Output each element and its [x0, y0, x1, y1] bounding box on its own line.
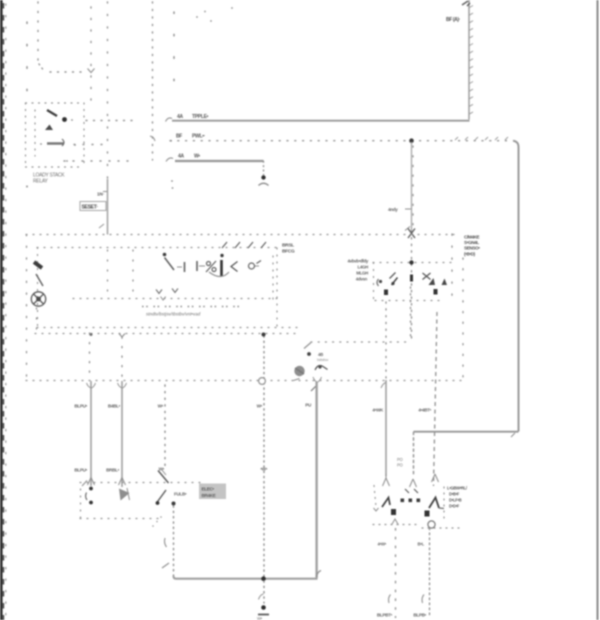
AC relay switch slashes: [390, 273, 396, 279]
wire dotted vertical x91: [90, 7, 92, 102]
svg-text:BFCG: BFCG: [282, 249, 295, 255]
svg-text:W•: W•: [158, 404, 164, 409]
pin square A: [391, 509, 396, 515]
connector end fork wire x386: [383, 474, 390, 486]
wire dotted row y161 from relay: [64, 160, 132, 162]
lower-left dashed box: [80, 483, 200, 520]
connector symbol below x263: [259, 183, 269, 185]
switch lever A in lower-right box: [382, 498, 390, 508]
svg-text:BRBL•: BRBL•: [106, 468, 120, 473]
capacitor bars: [184, 262, 186, 272]
svg-text:D•D•F: D•D•F: [449, 504, 460, 509]
solenoid bar with arc: [220, 254, 223, 257]
percent symbol component: [207, 262, 211, 266]
tick on x317 below box: [311, 386, 316, 391]
wire x89 inside ECM box: [89, 333, 91, 379]
chevron contact: [231, 262, 238, 272]
svg-text:4•W•: 4•W•: [378, 542, 387, 547]
wire dotted line y140 PWL: [170, 140, 513, 142]
svg-text:4A: 4A: [177, 114, 183, 120]
wire dotted vertical x107: [107, 2, 109, 179]
terminal dot x263: [261, 175, 265, 179]
connector tick x386 top: [381, 383, 386, 389]
wire dotted vertical x152: [152, 2, 154, 160]
wire dotted vertical x38 top: [38, 2, 84, 72]
connector V mark x122 on row y333: [119, 334, 125, 338]
connector fork x122 at box top: [119, 478, 126, 486]
AC relay coil bar: [410, 275, 413, 282]
svg-text:BLPU•: BLPU•: [74, 468, 87, 473]
connector exit ticks wire x317: [313, 377, 322, 382]
wire horizontal y431: [414, 431, 519, 433]
junction circle x262 on box bottom: [259, 378, 266, 385]
wire dotted x429 bottom: [429, 528, 431, 618]
pin tick below fuse: [99, 224, 104, 228]
wire x264 below bus: [263, 581, 265, 603]
diode hook symbol: [315, 366, 328, 370]
switch S2 contacts x91: [89, 487, 93, 491]
wire sparse dotted vertical x174: [173, 12, 175, 98]
svg-text:L•GBW•RL/: L•GBW•RL/: [447, 486, 468, 491]
wire solid x122 down: [121, 381, 123, 487]
scan left border: [0, 0, 3, 620]
wire dotted row y144 from relay: [74, 144, 106, 146]
svg-text:PU: PU: [305, 403, 312, 408]
svg-text:D•B•F: D•B•F: [449, 492, 460, 497]
connector arc x429: [422, 595, 424, 604]
svg-text:ELEC•: ELEC•: [202, 487, 215, 492]
svg-text:MLGH: MLGH: [356, 271, 368, 276]
connector fork x91 at box top: [88, 478, 95, 486]
connector circle: [428, 521, 435, 528]
svg-text:S•GN4L: S•GN4L: [464, 240, 479, 245]
svg-text:4dvsn: 4dvsn: [356, 277, 368, 282]
wire dashed row y342: [311, 341, 411, 343]
tick at box top left: [82, 481, 87, 487]
ECM inner dashed box: [35, 248, 298, 334]
coil circle with tick: [249, 263, 255, 269]
wire dotted x410 below AC box: [410, 287, 412, 340]
svg-text:FULB•: FULB•: [174, 492, 187, 497]
connector hook at start of y160 wire: [166, 158, 173, 162]
junction dark dot x264 y334: [262, 333, 266, 337]
wire solid x386 down: [385, 380, 387, 476]
svg-text:BF (A)·: BF (A)·: [446, 17, 461, 23]
svg-text:BR4KE: BR4KE: [202, 493, 216, 498]
junction X mark at x411 y233: [408, 229, 415, 239]
stray dot below relay label: [26, 186, 28, 188]
switch lever B in lower-right box: [429, 498, 439, 509]
svg-text:BF: BF: [176, 134, 182, 140]
connector arc on x173: [165, 538, 167, 547]
svg-text:4vbvb•dfdy: 4vbvb•dfdy: [348, 259, 369, 264]
pin ticks above PWL wire right section: [455, 137, 508, 140]
AC relay arrow mark A: [429, 278, 436, 285]
stray connector dots top middle: [196, 7, 233, 22]
AC relay dashed box: [373, 263, 457, 302]
inner wires dotted columns: [37, 250, 134, 330]
svg-text:BLPB•: BLPB•: [413, 613, 426, 618]
junction dot ground bus x264: [261, 576, 266, 581]
wire dotted x386 below AC box: [385, 302, 387, 379]
AC relay pin squares: [384, 290, 388, 296]
relay K1 terminal dots row: [40, 119, 76, 162]
switch lever left: [36, 274, 43, 286]
svg-text:B4BL•: B4BL•: [108, 404, 121, 409]
svg-text:PO: PO: [397, 463, 403, 468]
wire solid line y120 A TPPLE: [172, 120, 470, 122]
connector arc x395: [389, 595, 391, 604]
wire sparse dotted vertical x27: [26, 22, 28, 100]
relay K1 coil body: [47, 142, 64, 145]
svg-text:4•WK: 4•WK: [372, 408, 384, 413]
relay K1 box (dashed): [26, 103, 85, 167]
fuse label box SESET on wire x107: [80, 202, 106, 211]
ground terminal dot: [261, 605, 266, 610]
wire sparse dots x452: [451, 234, 453, 302]
wire solid line y160 A W: [175, 160, 264, 162]
pin tick top: [462, 1, 470, 6]
svg-text:BRSL: BRSL: [282, 243, 294, 249]
node junction x91 y71: [88, 69, 95, 73]
junction blob left inner edge: [34, 262, 42, 268]
terminal circles row: [142, 306, 240, 308]
pin tick on y431 wire: [511, 433, 515, 437]
relay K1 contact dot: [62, 117, 67, 122]
relay K1 coil arrow: [45, 125, 53, 131]
svg-text:BLPU•: BLPU•: [74, 404, 87, 409]
junction dot AC box top: [409, 260, 413, 264]
svg-text:SENSO•: SENSO•: [464, 246, 480, 251]
contact squares row: [401, 499, 405, 503]
fork above bottom wire x395: [392, 519, 399, 525]
svg-text:L4GH: L4GH: [357, 265, 368, 270]
svg-text:W•: W•: [194, 154, 200, 160]
wire solid x107 y180-234: [107, 179, 109, 235]
relay K1 switch lever: [47, 110, 57, 116]
tick on x173: [162, 563, 169, 568]
svg-text:SESET·: SESET·: [82, 205, 99, 211]
svg-text:B•L: B•L: [418, 542, 425, 547]
svg-text:W•: W•: [257, 616, 263, 620]
ground bus horizontal y578: [174, 382, 317, 579]
ELEC shaded box: [199, 484, 226, 500]
svg-text:•W•: •W•: [260, 467, 267, 472]
svg-text:PWL•·: PWL•·: [192, 134, 206, 140]
svg-text:bvbvbvv: bvbvbvv: [317, 358, 329, 362]
stray dots x172 below A W: [171, 180, 173, 189]
v-marks bottom left of inner box: [156, 290, 162, 294]
svg-text:stndtv/bstjsv/tbstbv/vnt•vad: stndtv/bstjsv/tbstbv/vnt•vad: [146, 312, 201, 317]
connector end fork wire x435: [432, 474, 439, 482]
svg-text:TPPLE•: TPPLE•: [192, 114, 209, 120]
scan right border: [597, 0, 599, 620]
svg-text:C/M4KE: C/M4KE: [464, 234, 480, 239]
svg-text:W•: W•: [159, 467, 165, 472]
tick w under lever A: [374, 508, 379, 511]
contact marks upper row: [405, 489, 418, 493]
wire stub x263 down from y160: [263, 161, 265, 175]
wire x122 inside ECM box: [121, 337, 123, 379]
svg-text:BLPBT•: BLPBT•: [377, 613, 393, 618]
svg-text:4A: 4A: [178, 154, 184, 160]
connector tick at start of PWL wire: [150, 136, 155, 141]
wire x413 down from corner: [413, 432, 415, 475]
switch S3 lower lever: [157, 490, 167, 503]
junction dot top of x173 wire: [172, 502, 176, 506]
contact slashes row top of inner box: [222, 242, 266, 248]
scan artifact dotted column beside border: [5, 4, 7, 618]
junction dot x91 row y333: [90, 333, 93, 336]
svg-text:D•LF•B: D•LF•B: [449, 498, 462, 503]
connector hook at start of y120 wire: [166, 118, 173, 122]
wire vertical x411 from PWL down to AC box: [411, 142, 413, 233]
connector exit ticks wire x122: [118, 383, 127, 388]
wire solid x317 down: [316, 382, 318, 578]
lower-right dashed box: [373, 486, 460, 529]
junction dot y354: [307, 352, 311, 356]
svg-text:4•4BT•: 4•4BT•: [418, 408, 431, 413]
wire solid x91 down: [90, 381, 92, 486]
wire dotted row y120 from relay: [86, 120, 132, 122]
lamp circled-X L1: [31, 292, 45, 306]
svg-text:4B: 4B: [318, 352, 323, 357]
BCM box right edge x469 with pin ticks: [468, 0, 470, 120]
connector tick x264 y597: [259, 594, 264, 600]
switch S3 lever x165: [158, 471, 169, 484]
AC relay bracket: [377, 279, 379, 286]
wire dotted x165 down: [164, 385, 166, 469]
wire twisted dashed x435: [434, 312, 438, 486]
pin square B: [425, 511, 430, 517]
AC relay arrow mark B: [442, 279, 448, 286]
wire dashed x395 bottom: [395, 528, 397, 618]
connector exit ticks wire x91: [87, 383, 96, 388]
wire long vertical x518: [513, 141, 519, 432]
wire dotted x173 down: [173, 506, 175, 576]
wire x264 dotted long: [263, 336, 265, 577]
svg-text:RELAY: RELAY: [33, 179, 48, 185]
stray diagonal dots below lower-left box: [153, 517, 161, 526]
switch S1 in inner box: [163, 253, 167, 257]
svg-text:1N·: 1N·: [97, 192, 104, 197]
svg-text:4ndy: 4ndy: [388, 207, 398, 212]
svg-text:(•B•D): (•B•D): [464, 251, 476, 256]
GM pump motor symbol: [294, 366, 304, 376]
connector end fork wire x413: [410, 479, 417, 487]
node junction dot on PWL at x411: [409, 138, 414, 143]
ground symbol G100: [258, 614, 269, 616]
ECM outer dashed box: [26, 235, 466, 382]
svg-text:W•: W•: [257, 404, 263, 409]
diode D1 triangle x124: [119, 489, 130, 501]
svg-text:PO: PO: [397, 457, 403, 462]
switch tick to GM symbol: [304, 343, 311, 349]
AC relay X contact: [423, 273, 431, 280]
